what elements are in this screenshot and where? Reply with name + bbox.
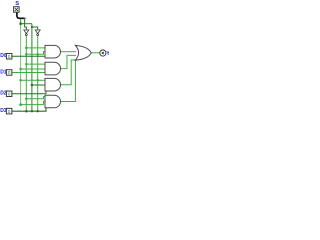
svg-text:0: 0 xyxy=(8,54,11,59)
svg-text:D0: D0 xyxy=(0,53,7,59)
svg-text:D3: D3 xyxy=(0,108,7,114)
svg-text:0: 0 xyxy=(8,91,11,96)
svg-text:0: 0 xyxy=(8,70,11,75)
svg-text:D2: D2 xyxy=(0,91,7,97)
svg-text:S: S xyxy=(15,1,19,7)
svg-text:D1: D1 xyxy=(0,69,7,75)
svg-text:Y: Y xyxy=(106,51,109,57)
svg-text:0: 0 xyxy=(8,109,11,114)
